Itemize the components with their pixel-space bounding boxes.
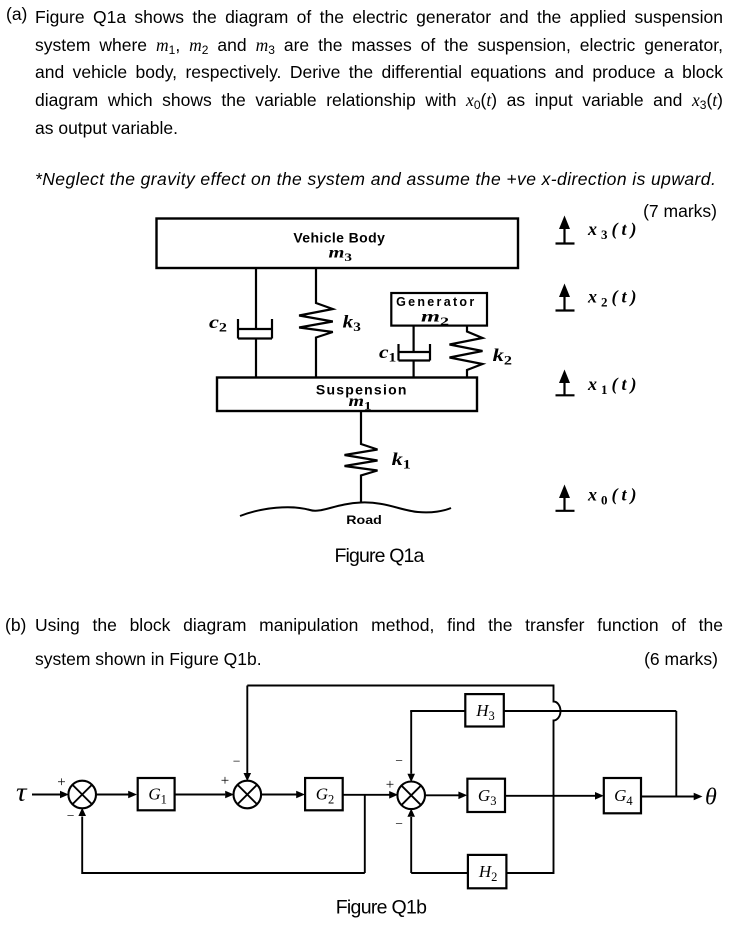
block G4 <box>604 778 641 813</box>
svg-text:τ: τ <box>16 778 28 807</box>
svg-text:−: − <box>395 816 403 831</box>
arrow x3 datum <box>556 216 575 244</box>
svg-text:Figure Q1a: Figure Q1a <box>334 545 424 567</box>
svg-text:G2: G2 <box>316 785 335 807</box>
svg-text:Figure Q1b: Figure Q1b <box>336 897 427 919</box>
road ground wavy line <box>240 502 451 516</box>
wire H3 output into S3 top with arrowhead <box>410 711 412 774</box>
wire S1 to G1 with arrowhead <box>95 794 128 796</box>
svg-text:+: + <box>221 773 229 789</box>
block G2 <box>305 778 343 810</box>
summing junction S1 <box>68 781 96 809</box>
svg-text:x3(t): x3(t) <box>587 219 637 242</box>
part (a) label <box>6 4 27 25</box>
wire into S2 from top with arrowhead <box>246 686 248 774</box>
mass M1 Suspension box <box>217 378 477 412</box>
spring K3 <box>299 268 333 378</box>
svg-text:m2: m2 <box>421 308 449 328</box>
summing junction S2 <box>234 781 262 809</box>
block H2 <box>468 855 507 888</box>
wire G4 to theta output with arrowhead <box>641 796 694 798</box>
svg-text:H3: H3 <box>475 701 495 723</box>
svg-text:k1: k1 <box>392 449 411 472</box>
wire theta tap vertical <box>675 711 677 797</box>
wire H3 right segment to theta tap <box>504 710 677 712</box>
svg-text:k3: k3 <box>343 311 362 334</box>
part (b) paragraph <box>35 608 723 676</box>
arrow x1 datum <box>556 370 575 396</box>
svg-text:Road: Road <box>346 515 382 527</box>
spring K2 <box>450 326 483 378</box>
svg-text:Generator: Generator <box>396 295 476 309</box>
spring K1 <box>345 411 378 503</box>
svg-text:+: + <box>386 777 394 793</box>
block G3 <box>467 779 505 812</box>
arrow x0 datum <box>556 485 575 511</box>
svg-text:−: − <box>233 754 241 769</box>
wire feedback tap after G2 down <box>364 795 366 873</box>
wire S2 to G2 with arrowhead <box>261 794 297 796</box>
damper C2 cup <box>238 319 272 339</box>
damper C1 rod upper <box>413 326 415 352</box>
svg-text:−: − <box>395 753 403 768</box>
svg-text:x0(t): x0(t) <box>587 485 637 508</box>
block G1 <box>138 778 175 810</box>
svg-text:−: − <box>67 808 75 823</box>
svg-text:H2: H2 <box>478 862 498 884</box>
wire top feedback vertical with hop over H3 line <box>506 685 560 874</box>
svg-text:G1: G1 <box>148 785 167 807</box>
svg-text:c1: c1 <box>379 342 396 365</box>
svg-text:G4: G4 <box>614 786 633 808</box>
FIGURE Q1A SVG placeholder <box>0 195 740 575</box>
svg-text:Vehicle Body: Vehicle Body <box>293 230 385 246</box>
mass M3 Vehicle Body box <box>157 219 519 269</box>
damper C2 rod lower <box>255 339 257 379</box>
damper C2 rod upper <box>255 268 257 329</box>
note line italic <box>35 169 716 190</box>
FIGURE Q1B SVG placeholder <box>0 672 740 926</box>
damper C1 rod lower <box>413 361 415 379</box>
summing junction S3 <box>397 782 425 810</box>
wire S3 to G3 with arrowhead <box>424 794 458 796</box>
part (a) paragraph <box>35 4 723 142</box>
wire S3 bottom to H2 with arrowhead into S3 <box>410 817 412 873</box>
svg-text:+: + <box>57 775 65 791</box>
svg-text:x1(t): x1(t) <box>587 374 637 397</box>
(7 marks) <box>643 201 717 222</box>
wire G1 to summer S2 with arrowhead <box>175 794 226 796</box>
arrow x2 datum <box>556 284 575 311</box>
svg-text:G3: G3 <box>478 786 497 808</box>
wire G3 to G4 with arrowhead <box>505 795 596 797</box>
svg-text:k2: k2 <box>493 345 512 368</box>
wire G2 to summer S3 with arrowhead <box>343 794 390 796</box>
mass M2 Generator box <box>391 293 487 326</box>
wire top feedback horizontal <box>247 685 553 687</box>
svg-text:m3: m3 <box>329 245 353 265</box>
part (b) label <box>5 608 26 642</box>
damper C1 cup <box>399 344 431 361</box>
wire tau to summer S1 with arrowhead <box>32 794 60 796</box>
svg-text:x2(t): x2(t) <box>587 287 637 310</box>
wire bottom feedback to S1 <box>82 817 365 874</box>
block H3 <box>465 694 504 726</box>
svg-text:θ: θ <box>705 785 717 811</box>
svg-text:c2: c2 <box>209 312 227 335</box>
wire H3 left segment <box>410 710 465 712</box>
